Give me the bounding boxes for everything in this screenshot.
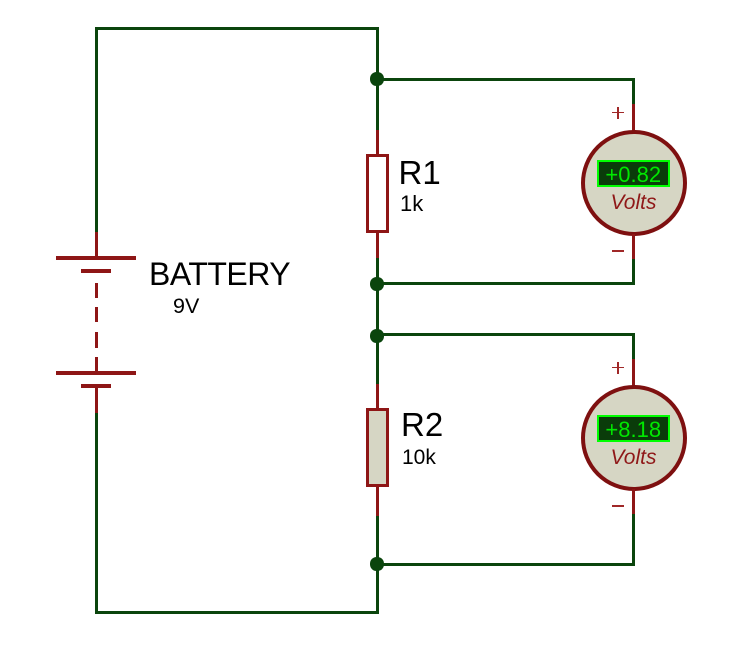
voltmeter 1 units label Volts xyxy=(584,192,684,213)
battery plate long (cell 2 +) xyxy=(56,371,136,375)
wire voltmeter 2 top drop xyxy=(632,333,635,359)
battery top pin xyxy=(95,232,98,256)
battery dashed link dash 2 xyxy=(95,307,98,322)
wire top horizontal (battery+ to node A) xyxy=(95,27,379,30)
wire mid vertical (node A to R1 top) xyxy=(376,27,379,131)
wire node A to voltmeter 1 plus xyxy=(376,78,635,81)
voltmeter 2 display xyxy=(597,415,671,442)
node C junction xyxy=(370,329,383,342)
battery value 9V xyxy=(173,296,199,318)
node B junction xyxy=(370,277,383,290)
resistor R2 label xyxy=(401,408,443,441)
battery dashed link dash 3 xyxy=(95,332,98,348)
wire voltmeter 1 bottom drop xyxy=(632,259,635,285)
voltmeter 1 plus mark xyxy=(0,0,1,1)
voltmeter 1 minus mark xyxy=(612,250,624,252)
wire bottom horizontal rail xyxy=(95,611,379,614)
resistor R1 bottom pin xyxy=(376,233,379,258)
resistor R1 label xyxy=(399,156,441,189)
wire mid vertical (R2 bottom to bottom rail) xyxy=(376,516,379,614)
wire left vertical upper (to battery +) xyxy=(95,27,98,233)
voltmeter 1 body xyxy=(581,130,687,236)
battery plate short (cell 1 -) xyxy=(81,269,111,274)
voltmeter 1 display xyxy=(597,160,671,187)
resistor R1 value 1k xyxy=(400,193,423,215)
voltmeter 2 units label Volts xyxy=(584,447,684,468)
resistor R2 bottom pin xyxy=(376,487,379,516)
resistor R2 top pin xyxy=(376,384,379,409)
battery label BATTERY xyxy=(149,258,290,290)
wire voltmeter 1 top drop xyxy=(632,78,635,105)
voltmeter 1 top pin xyxy=(632,104,635,132)
wire voltmeter 2 bottom drop xyxy=(632,514,635,566)
battery plate long (cell 1 +) xyxy=(56,256,136,260)
wire mid vertical (node B to node C to R2 top) xyxy=(376,258,379,384)
voltmeter 2 top pin xyxy=(632,359,635,387)
voltmeter 2 bottom pin xyxy=(632,489,635,514)
resistor R1 top pin xyxy=(376,130,379,155)
node A junction xyxy=(370,72,383,85)
battery dashed link dash 4 xyxy=(95,357,98,371)
voltmeter 2 body xyxy=(581,385,687,491)
battery plate short (cell 2 -) xyxy=(81,384,111,389)
voltmeter 1 bottom pin xyxy=(632,234,635,259)
resistor R1 xyxy=(366,154,390,233)
battery dashed link dash 1 xyxy=(95,283,98,298)
wire voltmeter 1 minus to node B xyxy=(376,282,635,285)
battery BT1 xyxy=(0,0,1,1)
node D junction xyxy=(370,557,383,570)
voltmeter 2 plus mark xyxy=(0,0,1,1)
resistor R2 value 10k xyxy=(402,447,436,468)
battery bottom pin xyxy=(95,388,98,413)
resistor R2 xyxy=(366,408,390,487)
wire node C to voltmeter 2 plus xyxy=(376,333,635,336)
wire left vertical lower (battery - to bottom rail) xyxy=(95,413,98,614)
wire voltmeter 2 minus to node D xyxy=(376,563,635,566)
voltmeter 2 minus mark xyxy=(612,505,624,507)
